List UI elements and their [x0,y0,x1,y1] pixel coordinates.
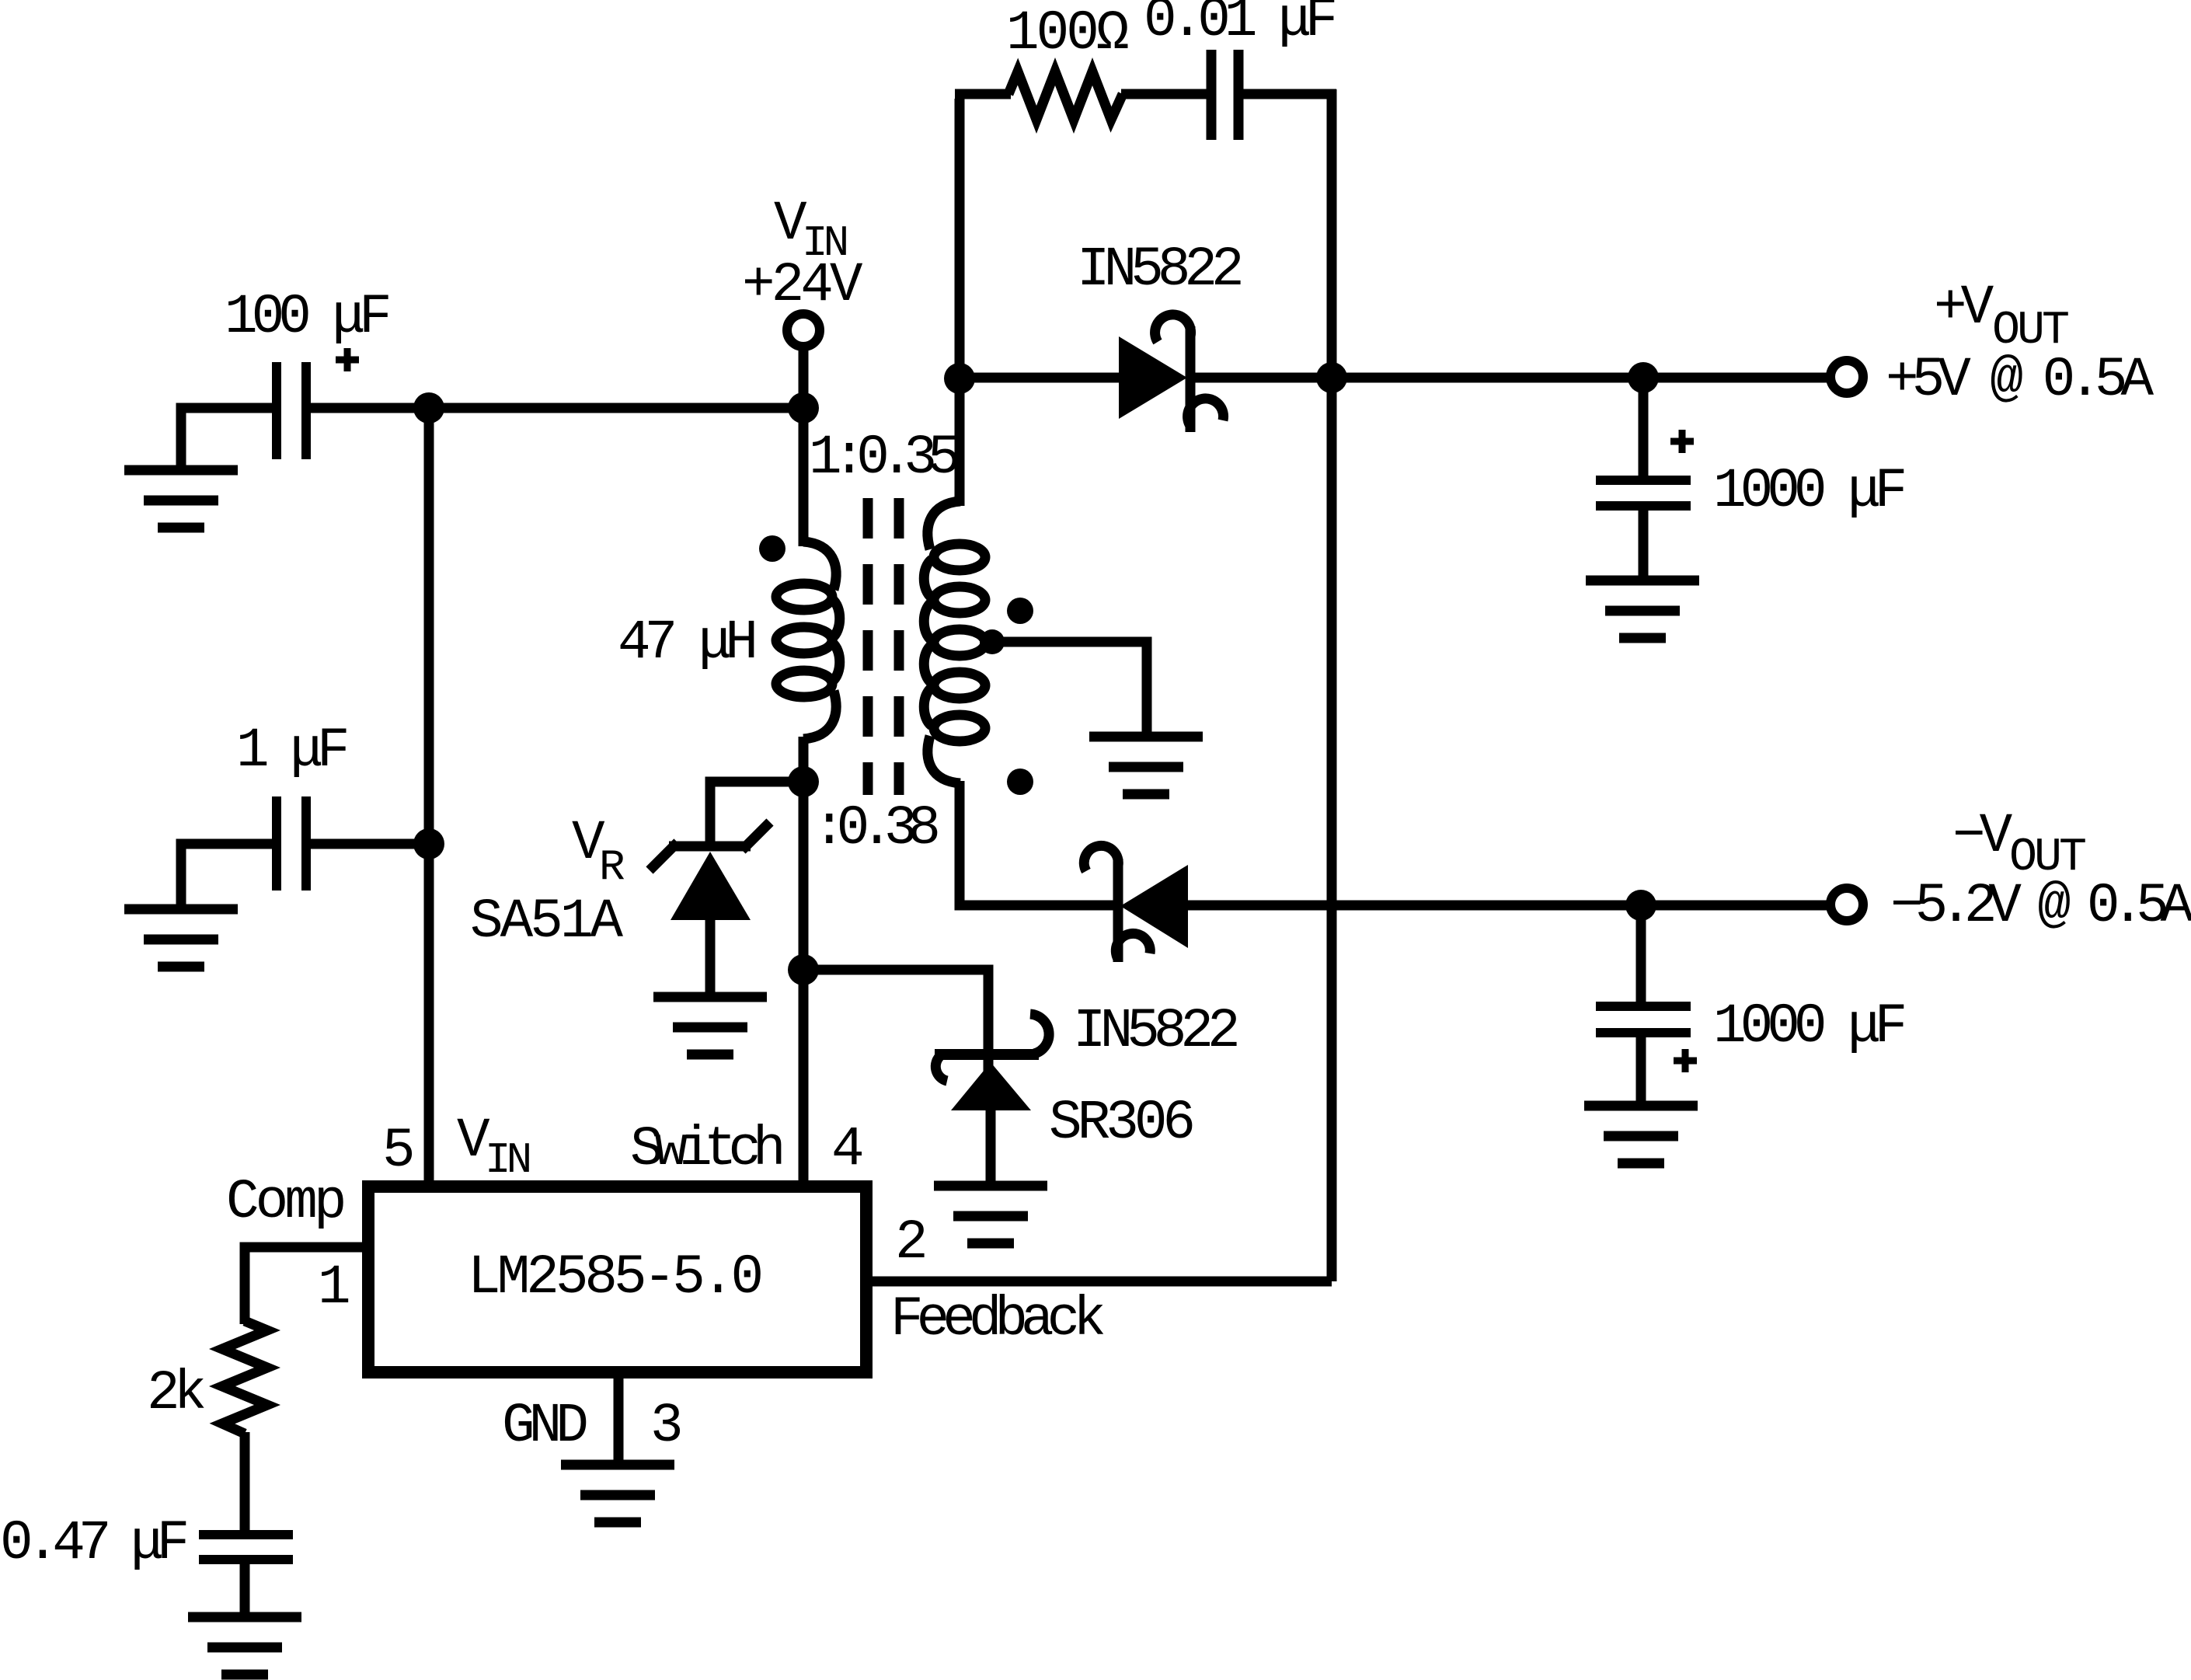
svg-text:+24V: +24V [742,255,863,317]
wire switch rail to pin4 [799,782,809,1189]
wire feedback pin2 [866,1277,1332,1287]
wire secondary top lead [955,378,965,506]
ground C5 [1586,580,1699,638]
svg-text:4: 4 [831,1119,862,1181]
svg-text:Feedback: Feedback [890,1289,1103,1351]
wire snubber left vertical [955,99,965,365]
wire SR306 anode lead [986,1110,996,1190]
terminal +Vout [1830,361,1863,393]
resistor R2 2k [222,1321,267,1434]
transformer T1 primary winding 47uH [776,542,840,739]
capacitor C2 0.01 uF [1211,50,1238,140]
capacitor C3 1 uF [277,796,306,891]
node Vin rail 1uF junction [413,828,444,859]
svg-text:1000 μF: 1000 μF [1713,461,1904,523]
phase dot secondary lower [1007,769,1033,795]
capacitor C4 0.47 uF [199,1535,293,1560]
diode D3 SR306 [935,1014,1049,1110]
ground zener [653,997,767,1054]
ground pin3 [561,1465,674,1522]
svg-text:GND: GND [502,1396,586,1458]
wire C5 to ground [1639,506,1649,580]
wire +Vout cap stub [1639,378,1649,476]
wire Vin terminal stub [799,347,809,408]
wire C6 to ground [1636,1033,1646,1107]
wire feedback rail vertical [1327,378,1337,1281]
svg-text:0.47 μF: 0.47 μF [0,1513,186,1575]
svg-text:3: 3 [650,1396,681,1458]
terminal -Vout [1830,888,1863,921]
svg-text:47 μH: 47 μH [618,612,754,674]
wire 1uF to Vin rail [311,839,429,849]
svg-text:+V: +V [1934,277,1994,340]
wire secondary bottom lead [960,781,1116,905]
label C1 plus [336,348,359,371]
wire input top row [311,403,803,413]
svg-text:100 μF: 100 μF [225,287,388,349]
svg-text:2: 2 [895,1212,925,1274]
node +Vout rail [1316,362,1347,393]
node SR306 branch [788,954,819,985]
wire secondary top to diode anode [960,373,1122,383]
diode D1 IN5822 [1119,315,1224,432]
phase dot primary [759,535,785,562]
ground C1 [124,470,238,528]
ground C6 [1584,1106,1698,1163]
node secondary top [944,363,975,394]
svg-text:1 μF: 1 μF [236,720,347,782]
resistor R1 100 Ohm [1008,71,1123,120]
wire GND pin3 stub [614,1372,624,1467]
node +Vout cap junction [1628,362,1659,393]
wire capacitor to snubber right vertical [1238,89,1336,99]
wire diode cathode to +Vout node [1193,373,1332,383]
svg-text:−5.2V @ 0.5A: −5.2V @ 0.5A [1890,876,2191,938]
svg-text:Switch: Switch [630,1119,782,1181]
diode D2 IN5822 bottom [1084,845,1188,962]
wire C6 stub [1636,905,1646,1006]
wire comp pin1 [245,1247,368,1324]
IC U1 LM2585-5.0 box [368,1187,866,1372]
transformer core dashed lines [868,498,899,795]
svg-text:−V: −V [1952,806,2013,868]
node primary bottom [788,766,819,797]
phase dot secondary upper [1007,598,1033,624]
wire -Vout row [1185,901,1831,911]
svg-text:1: 1 [318,1257,349,1319]
wire +Vout row [1332,373,1831,383]
svg-text:SA51A: SA51A [470,891,623,953]
node -Vout cap junction [1625,890,1656,921]
ground SR306 [934,1186,1047,1243]
wire snubber top left segment [955,89,1011,99]
svg-text:1000 μF: 1000 μF [1713,996,1904,1058]
wire R2 to C4 [240,1432,250,1535]
svg-text::0.38: :0.38 [813,798,937,860]
wire 100uF left lead [181,408,273,475]
wire zener top lead [710,782,803,843]
svg-text:+5V @ 0.5A: +5V @ 0.5A [1886,350,2154,412]
node input cap junction [413,392,444,423]
ground C3 [124,909,238,967]
svg-text:0.01 μF: 0.01 μF [1144,0,1335,52]
ground C4 [188,1617,301,1675]
capacitor C6 1000 uF bottom [1596,1006,1691,1033]
svg-text:Comp: Comp [226,1172,343,1234]
label C5 plus [1670,430,1694,453]
svg-text:IN5822: IN5822 [1077,239,1241,301]
node Vin junction [788,392,819,423]
svg-text:1:0.35: 1:0.35 [809,427,958,490]
capacitor C1 100 uF [277,362,306,459]
svg-text:IN: IN [485,1135,530,1185]
wire snubber right vertical [1327,89,1337,378]
wire C4 to ground [240,1560,250,1620]
label C6 plus [1674,1049,1697,1072]
ground center tap [1089,737,1203,794]
capacitor C5 1000 uF top [1596,480,1691,506]
wire SR306 branch [803,970,988,1076]
wire resistor to capacitor [1121,89,1207,99]
wire 1uF left lead [181,844,273,914]
wire center tap to ground [992,642,1147,740]
node center tap [980,629,1005,654]
wire primary top lead [799,408,809,546]
svg-text:IN5822: IN5822 [1073,1001,1237,1063]
svg-text:2k: 2k [147,1363,204,1425]
wire zener anode lead [705,920,716,1002]
wire Vin rail vertical pin5 [424,408,434,1189]
svg-text:100Ω: 100Ω [1006,3,1128,65]
svg-text:SR306: SR306 [1049,1093,1192,1155]
svg-text:LM2585-5.0: LM2585-5.0 [468,1247,761,1309]
wire primary bottom lead [799,737,809,782]
svg-text:5: 5 [382,1121,413,1183]
transformer T1 secondary winding [924,501,985,783]
zener diode VR SA51A [650,822,770,920]
terminal Vin [787,314,820,347]
